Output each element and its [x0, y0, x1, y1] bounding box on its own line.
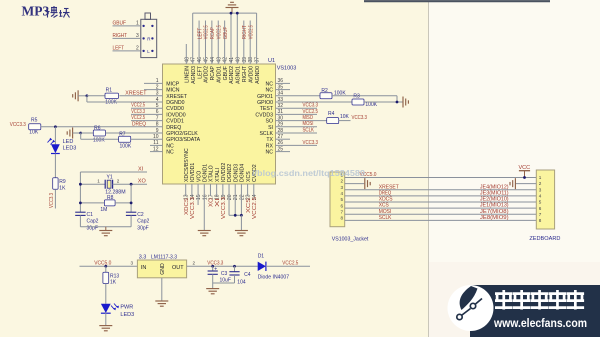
svg-text:3: 3 — [131, 261, 134, 266]
svg-text:45: 45 — [203, 57, 209, 63]
elecfans watermark box — [470, 285, 600, 337]
pin27 stub — [276, 138, 291, 140]
ground jacket pin2 — [365, 178, 370, 189]
svg-text:XRESET: XRESET — [166, 94, 188, 100]
svg-text:16: 16 — [202, 194, 208, 200]
wire regulator out — [187, 265, 258, 267]
svg-text:ZEDBOARD: ZEDBOARD — [529, 236, 560, 242]
wire pin37 — [256, 13, 258, 64]
svg-text:R1: R1 — [106, 87, 113, 93]
node VCC2.5 top pin 43 — [217, 21, 219, 65]
svg-text:U1: U1 — [268, 58, 275, 64]
svg-text:RIGHT: RIGHT — [242, 65, 248, 82]
svg-text:VCC2.5: VCC2.5 — [252, 197, 258, 219]
wire net XCS row6 — [345, 207, 537, 209]
svg-text:VCC3.3: VCC3.3 — [49, 193, 55, 208]
LED PWR LED3 — [101, 304, 111, 313]
pin36 stub — [276, 82, 291, 84]
svg-text:1K: 1K — [59, 185, 66, 191]
svg-text:AGND0: AGND0 — [255, 66, 261, 84]
svg-text:VCC3.3: VCC3.3 — [10, 122, 26, 128]
svg-text:C3: C3 — [221, 271, 228, 277]
resistor R7 — [119, 136, 131, 142]
svg-text:RCAP: RCAP — [210, 65, 216, 80]
svg-text:4: 4 — [539, 193, 542, 198]
svg-text:DGND4: DGND4 — [240, 164, 246, 182]
wire net XRESET row3 — [345, 189, 537, 191]
wire R3 right — [364, 101, 403, 103]
svg-text:NC: NC — [166, 150, 174, 156]
svg-text:NC: NC — [266, 88, 274, 94]
svg-text:C4: C4 — [244, 272, 251, 278]
wire crystal gnd — [80, 226, 131, 228]
chip pin names — [166, 65, 274, 182]
svg-text:SCLK: SCLK — [259, 131, 273, 137]
svg-text:8: 8 — [340, 216, 343, 221]
svg-text:OUT: OUT — [172, 265, 184, 271]
svg-text:DGND1: DGND1 — [202, 164, 208, 182]
right rail — [130, 184, 132, 212]
node VCC2.5 top pin 38 — [249, 21, 251, 65]
svg-text:CVDD1: CVDD1 — [166, 119, 184, 125]
wire gnd join — [229, 214, 241, 216]
ground DGND right — [235, 231, 248, 236]
svg-text:DGND2: DGND2 — [227, 164, 233, 182]
svg-text:XTALI: XTALI — [215, 168, 221, 182]
svg-text:22: 22 — [239, 194, 245, 200]
svg-text:NC: NC — [266, 81, 274, 87]
svg-text:C2: C2 — [137, 212, 144, 218]
svg-text:R6: R6 — [94, 126, 101, 132]
svg-text:MICN: MICN — [166, 88, 180, 94]
svg-text:D1: D1 — [258, 253, 265, 259]
svg-text:R4: R4 — [328, 111, 335, 117]
node VCC3.3 pin32 — [276, 107, 318, 109]
svg-text:VCC3.3: VCC3.3 — [303, 103, 319, 109]
svg-text:VCC3.3: VCC3.3 — [131, 109, 145, 115]
svg-text:DGND3: DGND3 — [233, 164, 239, 182]
node VCC3.3 bottom pin 14 — [191, 184, 193, 196]
junction dots gnd — [234, 214, 237, 217]
node MISO pin30 + R4 pullup — [276, 120, 327, 122]
ground PWR LED — [99, 326, 112, 331]
capacitor C2 — [126, 211, 136, 213]
svg-text:JE8(MIO9): JE8(MIO9) — [480, 215, 509, 221]
resistor R4 — [327, 118, 339, 124]
svg-text:LED: LED — [63, 139, 74, 145]
svg-text:104: 104 — [237, 279, 246, 285]
svg-text:CVDD0: CVDD0 — [166, 106, 184, 112]
svg-text:XTALO: XTALO — [209, 165, 215, 182]
svg-text:R9: R9 — [59, 179, 66, 185]
svg-text:GPIO3/SDATA: GPIO3/SDATA — [166, 137, 200, 143]
svg-text:VCC3.3: VCC3.3 — [303, 140, 319, 146]
svg-text:3: 3 — [539, 187, 542, 192]
wire DGND3 pin21 — [234, 184, 236, 215]
svg-text:LEFT: LEFT — [113, 45, 125, 51]
svg-text:1: 1 — [97, 179, 100, 184]
svg-text:43: 43 — [216, 57, 222, 63]
ground zed pin2 — [510, 178, 515, 189]
svg-text:JE1(MIO13): JE1(MIO13) — [480, 203, 509, 209]
ground for R6 R7 — [67, 128, 72, 139]
resistor R5 — [29, 124, 41, 130]
svg-text:R2: R2 — [321, 88, 328, 94]
wire regulator gnd — [161, 278, 163, 301]
diode D1 IN4007 — [258, 262, 266, 271]
svg-text:7: 7 — [539, 212, 542, 217]
svg-text:TEST: TEST — [260, 106, 274, 112]
svg-text:LEFT: LEFT — [197, 27, 203, 39]
wire net SCLK row8 — [345, 219, 537, 221]
wire pin40 — [236, 13, 238, 64]
svg-text:2: 2 — [340, 179, 343, 184]
svg-text:GPIO1: GPIO1 — [257, 94, 273, 100]
node VCC3.3 pin 6 — [131, 113, 163, 115]
svg-text:5: 5 — [340, 197, 343, 202]
svg-text:GPIO0: GPIO0 — [257, 100, 273, 106]
wire XRESET pin3 — [119, 95, 162, 97]
ground C3C4 — [206, 289, 219, 294]
elecfans watermark text — [495, 290, 584, 310]
pin25 stub — [276, 151, 291, 153]
svg-text:XRESET: XRESET — [379, 184, 400, 190]
svg-text:7: 7 — [340, 209, 343, 214]
svg-text:DREQ: DREQ — [166, 125, 181, 131]
resistor R1 — [105, 93, 119, 98]
svg-text:6: 6 — [539, 206, 542, 211]
svg-text:AVDD0: AVDD0 — [248, 66, 254, 83]
capacitor C4 104 — [234, 266, 236, 271]
svg-text:VCC5.0: VCC5.0 — [94, 261, 111, 267]
wire to crystal — [80, 183, 105, 185]
junction R8 right — [130, 202, 133, 205]
connector ZEDBOARD — [536, 170, 554, 229]
svg-text:100K: 100K — [105, 100, 117, 106]
svg-text:VCC2.5: VCC2.5 — [204, 25, 210, 39]
svg-text://blog.csdn.net/ltq1584589: //blog.csdn.net/ltq1584589 — [252, 169, 366, 178]
svg-text:XCS: XCS — [246, 171, 252, 182]
svg-text:100K: 100K — [365, 102, 377, 108]
svg-text:+: + — [214, 266, 217, 272]
svg-text:JE4(MIO12): JE4(MIO12) — [480, 184, 509, 190]
svg-text:AGND1: AGND1 — [236, 66, 242, 84]
svg-text:www.elecfans.com: www.elecfans.com — [493, 316, 587, 330]
op chip U1 VS1003 body — [163, 64, 276, 184]
svg-text:LED3: LED3 — [120, 312, 134, 318]
jack pin 2 LEFT — [113, 50, 141, 52]
svg-text:C1: C1 — [87, 212, 94, 218]
svg-text:R7: R7 — [119, 131, 126, 137]
svg-text:TX: TX — [266, 137, 273, 143]
svg-text:10K: 10K — [29, 129, 39, 135]
svg-text:LM1117-3.3: LM1117-3.3 — [151, 255, 177, 261]
svg-text:XRESET: XRESET — [125, 90, 147, 96]
svg-text:30pF: 30pF — [137, 226, 148, 232]
svg-text:GBUF: GBUF — [223, 26, 229, 39]
wire D1 out — [266, 265, 310, 267]
wire GPIO1 pin34 — [276, 95, 321, 97]
junction C3 — [211, 265, 214, 268]
wire to R8 — [80, 202, 104, 204]
audio jack connector — [141, 19, 157, 57]
wire zed pin2 gnd — [516, 183, 536, 185]
svg-text:10uF: 10uF — [220, 277, 231, 283]
svg-text:XCS: XCS — [379, 203, 389, 209]
svg-text:R8: R8 — [107, 195, 114, 201]
svg-text:21: 21 — [233, 194, 239, 200]
node MOSI pin29 — [276, 126, 318, 128]
svg-text:2: 2 — [193, 261, 196, 266]
wire below R9 — [54, 189, 56, 208]
svg-text:40: 40 — [235, 57, 241, 63]
jack pin 1 GBUF — [113, 25, 141, 27]
svg-text:41: 41 — [229, 57, 235, 63]
svg-text:5: 5 — [539, 200, 542, 205]
svg-text:38: 38 — [248, 57, 254, 63]
svg-text:VCC2.5: VCC2.5 — [131, 115, 145, 121]
node LEFT top pin 46 — [198, 21, 200, 65]
node XDCS bottom pin 13 — [185, 184, 187, 196]
node VCC2.5 pin 5 — [131, 107, 163, 109]
svg-text:NC: NC — [266, 150, 274, 156]
resistor R9 — [53, 178, 58, 190]
svg-text:VCO: VCO — [196, 171, 202, 182]
node XCS bottom pin 23 — [247, 184, 249, 196]
svg-text:JE2(MIO10): JE2(MIO10) — [480, 197, 509, 203]
svg-text:MOSI: MOSI — [379, 209, 392, 215]
svg-text:DGND0: DGND0 — [166, 100, 184, 106]
wire NC pin11 — [150, 144, 163, 146]
wire VCC5.0 to regulator — [80, 265, 138, 267]
svg-text:47: 47 — [191, 57, 197, 63]
wire LED to R9 — [54, 154, 56, 178]
junction R1-gnd — [86, 94, 89, 97]
connector VS1003_Jacket — [330, 172, 345, 227]
wire gnd stem — [240, 215, 242, 230]
svg-text:CVDD3: CVDD3 — [255, 112, 273, 118]
svg-text:VCC3.3: VCC3.3 — [221, 197, 227, 219]
svg-text:SO: SO — [266, 119, 274, 125]
node GBUF top pin 42 — [224, 21, 226, 65]
svg-text:1: 1 — [136, 21, 139, 27]
wire to R1 — [87, 95, 105, 97]
svg-text:LED3: LED3 — [63, 145, 77, 151]
wire DGND1 pin16 — [203, 184, 205, 231]
svg-text:JE3(MIO11): JE3(MIO11) — [480, 190, 509, 196]
regulator U2 LM1117-3.3 — [137, 260, 186, 278]
wire NC pin12 — [150, 151, 163, 153]
svg-text:Cap2: Cap2 — [87, 218, 99, 224]
svg-text:JE7(MIO8): JE7(MIO8) — [480, 209, 509, 215]
svg-text:XO: XO — [209, 197, 215, 207]
wire R7 to pin10 — [131, 138, 163, 140]
ground R2R3 — [403, 97, 408, 108]
node VCC2.5 top pin 45 — [204, 21, 206, 65]
wire R6 to pin9 — [105, 132, 162, 134]
node RIGHT top pin 39 — [243, 21, 245, 65]
svg-text:LEFT: LEFT — [197, 65, 203, 79]
wire to R6 — [81, 132, 94, 134]
svg-text:2: 2 — [539, 181, 542, 186]
svg-text:AGND3: AGND3 — [191, 66, 197, 84]
svg-text:44: 44 — [210, 57, 216, 63]
resistor R8 — [104, 200, 115, 206]
svg-text:6: 6 — [340, 203, 343, 208]
svg-text:AGND2: AGND2 — [229, 66, 235, 84]
svg-text:XCS: XCS — [246, 198, 252, 213]
wire MICP pin1 — [144, 82, 163, 84]
svg-text:15: 15 — [196, 194, 202, 200]
svg-text:R5: R5 — [31, 118, 38, 124]
wire DREQ net — [41, 126, 163, 128]
wire pin41 — [230, 13, 232, 64]
junction LED — [54, 125, 57, 128]
svg-text:VS1003: VS1003 — [277, 66, 297, 72]
wire jacket pin1 VCC5.0 — [345, 177, 537, 179]
left rail — [79, 172, 81, 212]
crystal Y1 — [104, 180, 106, 189]
junction R6R7 — [79, 132, 82, 135]
elecfans watermark logo — [448, 285, 494, 331]
wire jacket pin2 gnd — [345, 183, 365, 185]
svg-text:48: 48 — [184, 57, 190, 63]
capacitor C1 — [75, 211, 85, 213]
svg-text:XDCS: XDCS — [184, 198, 190, 215]
svg-text:10K: 10K — [340, 114, 350, 120]
wire to R13 — [105, 266, 107, 272]
svg-text:DREQ: DREQ — [379, 190, 392, 196]
svg-text:Y1: Y1 — [107, 174, 113, 180]
resistor R2 — [320, 93, 332, 99]
ground for R1 — [73, 90, 78, 101]
wire down to R7 row — [80, 133, 82, 139]
svg-text:XDCS: XDCS — [379, 197, 393, 203]
wire pin47 — [192, 13, 194, 64]
junction C4 — [233, 265, 236, 268]
wire XO net — [113, 183, 147, 185]
pin48 stub — [185, 44, 187, 64]
sheet right border — [428, 1, 430, 337]
ground top — [231, 8, 233, 14]
wire DGND2 pin20 — [228, 184, 230, 215]
svg-text:2: 2 — [136, 46, 139, 52]
wire XI net — [80, 171, 147, 173]
node VCC2.5 pin31 — [276, 113, 318, 115]
junction R8 left — [79, 202, 82, 205]
svg-text:AVDD1: AVDD1 — [216, 66, 222, 83]
svg-text:R3: R3 — [353, 94, 360, 100]
svg-text:MISO: MISO — [303, 115, 314, 121]
svg-text:VCC2.5: VCC2.5 — [282, 261, 298, 267]
svg-text:3: 3 — [340, 185, 343, 190]
node RCAP top pin 44 — [211, 21, 213, 65]
svg-text:VCC2.5: VCC2.5 — [303, 109, 319, 115]
wire net XDCS row5 — [345, 201, 537, 203]
svg-text:2: 2 — [117, 179, 120, 184]
svg-text:Cap2: Cap2 — [137, 218, 149, 224]
svg-text:MP3: MP3 — [22, 3, 50, 18]
svg-text:SCLK: SCLK — [303, 127, 315, 133]
pin15 VCO stub — [197, 184, 199, 205]
svg-text:GPIO2/GCLK: GPIO2/GCLK — [166, 131, 198, 137]
svg-text:MICP: MICP — [166, 81, 180, 87]
ground DGND1 — [198, 231, 211, 236]
wire R13 to LED — [105, 284, 107, 304]
svg-text:IOVDD2: IOVDD2 — [221, 163, 227, 182]
svg-text:RIGHT: RIGHT — [113, 33, 128, 39]
svg-text:46: 46 — [197, 57, 203, 63]
resistor R13 — [103, 272, 109, 283]
svg-text:GBUF: GBUF — [113, 20, 127, 26]
svg-text:XI: XI — [138, 166, 144, 172]
wire LED to gnd — [105, 313, 107, 326]
wire MICN pin2 — [144, 89, 163, 91]
jack pin 3 RIGHT — [113, 37, 141, 39]
svg-text:PWR: PWR — [120, 304, 133, 310]
wire to LED — [54, 127, 56, 145]
wire R2 right — [332, 95, 397, 97]
ground regulator — [155, 301, 168, 306]
svg-text:VCC2.5: VCC2.5 — [131, 103, 145, 109]
node VCC2.5 bottom pin 24 — [253, 184, 255, 196]
resistor R3 — [352, 99, 364, 105]
svg-text:3.3: 3.3 — [139, 255, 147, 261]
svg-text:VCC2.5: VCC2.5 — [216, 25, 222, 39]
node VCC3.3 bottom pin 19 — [222, 184, 224, 196]
junction R2R3 — [396, 101, 399, 104]
capacitor C3 10uF — [212, 266, 214, 271]
svg-text:VCC2.5: VCC2.5 — [248, 25, 254, 39]
junction R13 — [104, 265, 107, 268]
top window edge line — [364, 0, 550, 2]
svg-text:42: 42 — [223, 57, 229, 63]
svg-text:39: 39 — [242, 57, 248, 63]
svg-text:GBUF: GBUF — [223, 66, 229, 80]
wire top AGND rail — [193, 12, 257, 14]
svg-text:SCLK: SCLK — [379, 215, 392, 221]
node VCC2.5 pin 7 — [131, 120, 163, 122]
junction dots top rail — [230, 12, 233, 15]
wire GPIO0 pin33 — [276, 101, 353, 103]
svg-text:SI: SI — [268, 125, 273, 131]
wire R8 right — [115, 202, 131, 204]
svg-text:IOVDD1: IOVDD1 — [190, 163, 196, 182]
svg-text:4: 4 — [340, 191, 343, 196]
svg-text:1M: 1M — [100, 207, 107, 213]
svg-text:8: 8 — [539, 218, 542, 223]
svg-text:XI: XI — [215, 197, 221, 207]
pin35 stub — [276, 89, 291, 91]
svg-text:GND: GND — [160, 263, 166, 275]
svg-text:XDCS/BSYNC: XDCS/BSYNC — [184, 148, 190, 182]
svg-text:VCC3.3: VCC3.3 — [190, 197, 196, 219]
svg-text:XO: XO — [138, 179, 147, 185]
svg-text:NC: NC — [166, 143, 174, 149]
svg-text:Diode IN4007: Diode IN4007 — [258, 274, 289, 280]
node VCC3.3 pin26 — [276, 144, 318, 146]
svg-text:IOVDD0: IOVDD0 — [166, 112, 185, 118]
svg-text:IN: IN — [141, 265, 147, 271]
svg-text:1: 1 — [539, 175, 542, 180]
svg-text:AVDD2: AVDD2 — [204, 66, 210, 83]
chip pin numbers — [153, 57, 283, 200]
svg-text:3: 3 — [136, 33, 139, 39]
junction left rail — [79, 183, 82, 186]
svg-text:VCC3.3: VCC3.3 — [352, 115, 368, 121]
svg-text:100K: 100K — [120, 144, 132, 150]
svg-text:1K: 1K — [110, 280, 117, 286]
